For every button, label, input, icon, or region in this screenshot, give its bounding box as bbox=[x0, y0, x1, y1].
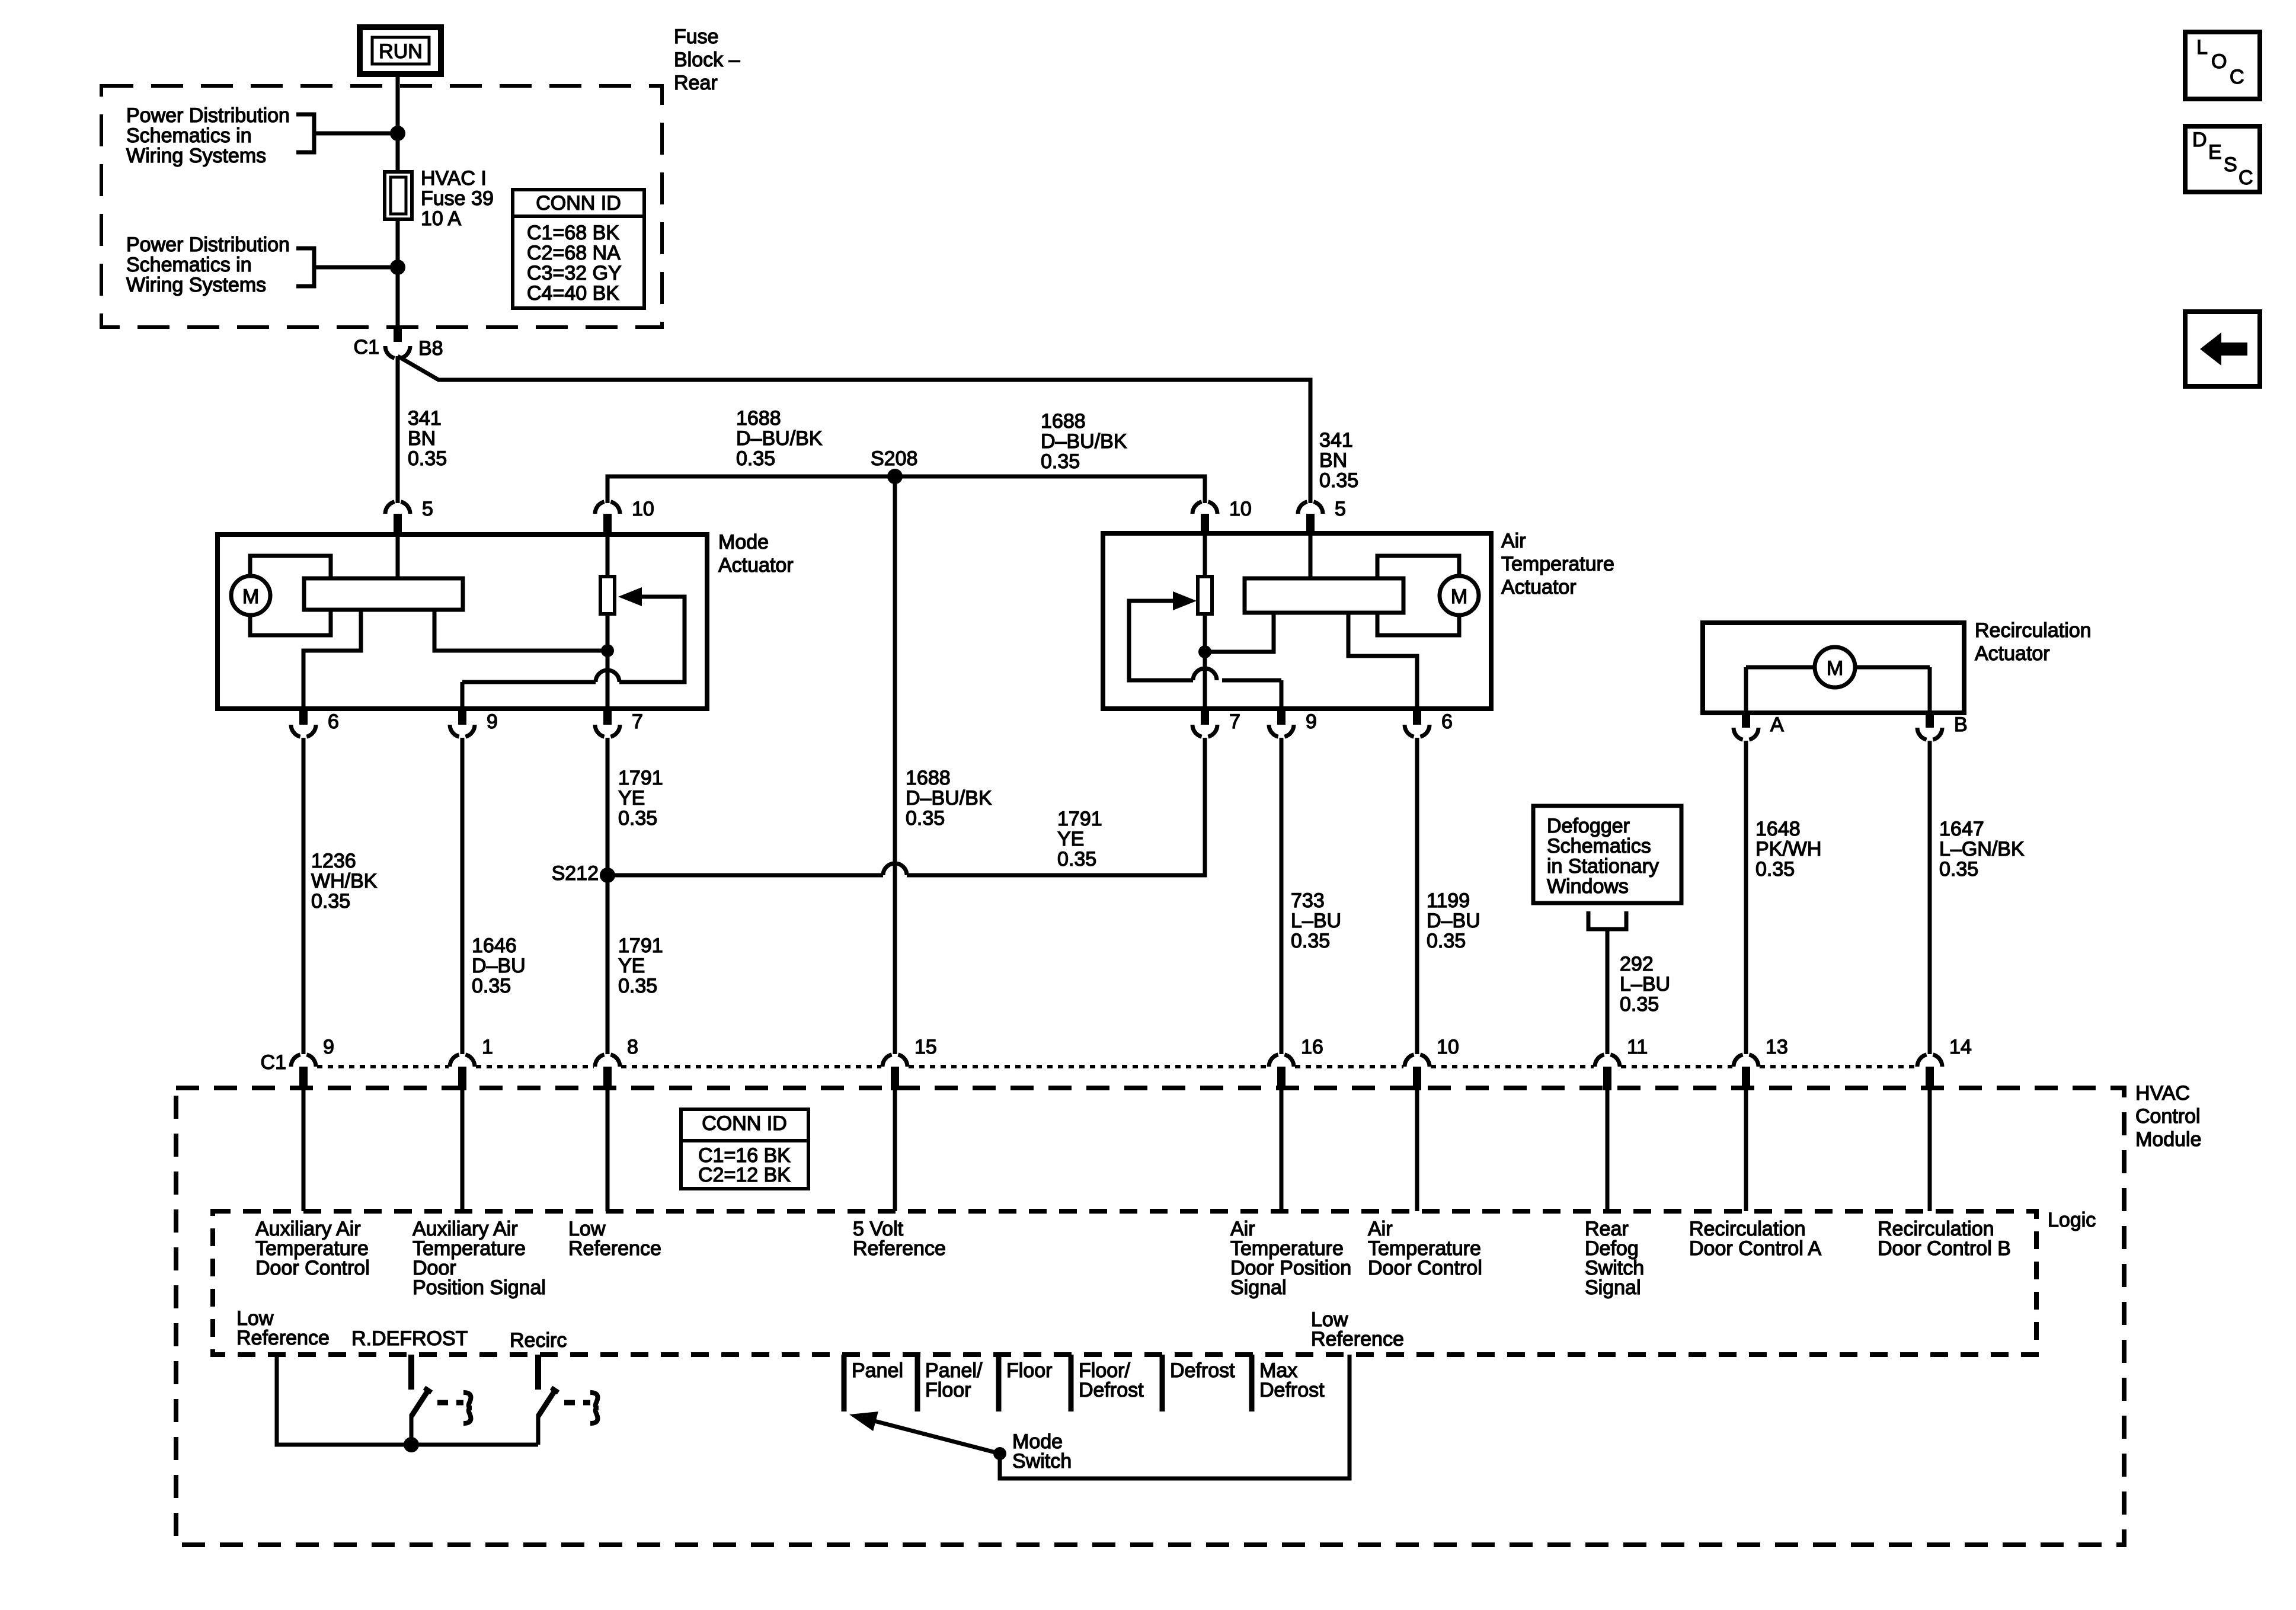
svg-text:Fuse: Fuse bbox=[674, 25, 719, 48]
module pin 16 connector bbox=[1269, 1055, 1278, 1067]
svg-text:YE: YE bbox=[1057, 828, 1084, 850]
svg-text:Power Distribution: Power Distribution bbox=[126, 104, 290, 127]
recirc pin A connector bbox=[1742, 713, 1750, 728]
wire wiper junction to bar (air temp) bbox=[1209, 613, 1274, 652]
svg-text:C4=40 BK: C4=40 BK bbox=[527, 282, 619, 305]
junction node power 1 bbox=[390, 126, 405, 141]
svg-text:6: 6 bbox=[328, 710, 339, 733]
svg-text:C2=68 NA: C2=68 NA bbox=[527, 242, 621, 264]
svg-text:6: 6 bbox=[1441, 710, 1453, 733]
mode switch position tick Floor bbox=[996, 1355, 1002, 1411]
mode switch wiper dot bbox=[993, 1447, 1006, 1460]
defogger reference box bbox=[1533, 806, 1681, 903]
svg-text:9: 9 bbox=[487, 710, 498, 733]
power node RUN bbox=[360, 27, 441, 74]
svg-text:Reference: Reference bbox=[568, 1237, 661, 1260]
wire switch common bbox=[411, 1443, 538, 1447]
svg-text:14: 14 bbox=[1949, 1036, 1972, 1058]
hvac control module dashed box bbox=[176, 1088, 2124, 1545]
svg-text:Defogger: Defogger bbox=[1547, 815, 1630, 837]
svg-text:Panel: Panel bbox=[852, 1359, 903, 1382]
svg-text:341: 341 bbox=[408, 407, 442, 430]
svg-text:10: 10 bbox=[1437, 1036, 1459, 1058]
legend box back-arrow bbox=[2185, 312, 2260, 386]
air temp pin 5 connector bbox=[1298, 502, 1307, 514]
logic dashed box bbox=[213, 1211, 2036, 1355]
module pin 14 connector bbox=[1917, 1055, 1927, 1067]
svg-text:BN: BN bbox=[1319, 449, 1347, 472]
svg-text:L–GN/BK: L–GN/BK bbox=[1939, 838, 2025, 860]
wire pin5 into bar bbox=[396, 534, 400, 578]
mode actuator drive bar bbox=[304, 578, 463, 610]
svg-text:C3=32 GY: C3=32 GY bbox=[527, 262, 622, 284]
wire module pin 8 to logic bbox=[606, 1090, 610, 1211]
mode actuator wiper feedback wire bbox=[462, 680, 596, 684]
mode actuator motor M bbox=[231, 576, 270, 615]
wire 1236 WH/BK bbox=[302, 738, 306, 1054]
svg-text:M: M bbox=[1827, 657, 1843, 680]
svg-text:16: 16 bbox=[1301, 1036, 1323, 1058]
wire 1199 D-BU bbox=[1415, 738, 1419, 1054]
mode actuator pin 9 connector bbox=[458, 709, 466, 725]
wire pot bottom to pin 7 (air temp) bbox=[1203, 614, 1207, 709]
svg-text:Rear: Rear bbox=[674, 72, 718, 94]
mode actuator pin 6 connector bbox=[299, 709, 308, 725]
svg-text:0.35: 0.35 bbox=[472, 975, 511, 997]
svg-text:E: E bbox=[2208, 141, 2222, 164]
mode switch position tick Defrost bbox=[1160, 1355, 1165, 1411]
svg-text:S212: S212 bbox=[552, 862, 599, 885]
mode actuator potentiometer bbox=[606, 534, 610, 577]
svg-text:0.35: 0.35 bbox=[1319, 469, 1358, 492]
wire bar to wiper junction bbox=[434, 610, 603, 651]
svg-text:S208: S208 bbox=[871, 447, 917, 470]
svg-text:0.35: 0.35 bbox=[311, 890, 350, 913]
svg-text:7: 7 bbox=[632, 710, 643, 733]
switch R.DEFROST bbox=[408, 1355, 414, 1390]
wire module pin 1 to logic bbox=[461, 1090, 465, 1211]
svg-text:R.DEFROST: R.DEFROST bbox=[351, 1327, 468, 1350]
svg-text:Logic: Logic bbox=[2048, 1209, 2096, 1231]
mode actuator pin 5 connector bbox=[385, 502, 395, 514]
svg-text:Floor: Floor bbox=[925, 1379, 971, 1401]
svg-text:C1: C1 bbox=[261, 1051, 286, 1074]
svg-text:0.35: 0.35 bbox=[618, 807, 657, 830]
mode switch position tick Panel bbox=[842, 1355, 847, 1411]
wire pin 9 (air temp) bbox=[1280, 680, 1284, 709]
svg-text:Mode: Mode bbox=[718, 531, 769, 553]
wire recirc switch leg bbox=[536, 1415, 541, 1445]
svg-text:Recirculation: Recirculation bbox=[1975, 619, 2092, 642]
splice S212 bbox=[600, 868, 615, 883]
wire pot bottom to pin 7 bbox=[606, 614, 610, 709]
module pin 10 connector bbox=[1405, 1055, 1414, 1067]
wire 341 BN branch to air temperature actuator bbox=[398, 356, 1310, 503]
svg-text:Signal: Signal bbox=[1230, 1276, 1287, 1299]
svg-text:L: L bbox=[2196, 36, 2208, 59]
svg-text:Defrost: Defrost bbox=[1170, 1359, 1235, 1382]
svg-text:1648: 1648 bbox=[1755, 818, 1801, 840]
wire module pin 10 to logic bbox=[1415, 1090, 1419, 1211]
svg-text:15: 15 bbox=[914, 1036, 937, 1058]
module pin 13 connector bbox=[1734, 1055, 1743, 1067]
svg-text:Block –: Block – bbox=[674, 49, 740, 71]
svg-text:733: 733 bbox=[1291, 889, 1325, 912]
mode actuator pin 10 connector bbox=[595, 502, 605, 514]
svg-text:341: 341 bbox=[1319, 429, 1353, 452]
svg-text:M: M bbox=[242, 585, 259, 608]
svg-text:C2=12 BK: C2=12 BK bbox=[698, 1164, 791, 1186]
svg-text:Wiring Systems: Wiring Systems bbox=[126, 274, 266, 296]
svg-text:Schematics in: Schematics in bbox=[126, 124, 252, 147]
svg-text:Windows: Windows bbox=[1547, 875, 1629, 898]
wire bar to pin 6 bbox=[303, 610, 361, 709]
svg-text:Actuator: Actuator bbox=[1975, 642, 2050, 665]
conn id table fuse block bbox=[513, 190, 644, 308]
fuse F39 HVAC I 10A bbox=[385, 172, 412, 219]
svg-text:D–BU/BK: D–BU/BK bbox=[736, 427, 823, 450]
conn id table module bbox=[681, 1109, 808, 1189]
svg-text:L–BU: L–BU bbox=[1620, 973, 1670, 996]
svg-text:CONN ID: CONN ID bbox=[536, 192, 621, 215]
module pin 11 connector bbox=[1595, 1055, 1604, 1067]
air temp motor M bbox=[1440, 576, 1479, 615]
svg-text:Door Control: Door Control bbox=[1368, 1257, 1482, 1279]
wire low reference left bbox=[277, 1355, 408, 1445]
wire from RUN to fuse bbox=[396, 74, 400, 172]
svg-text:Door Control: Door Control bbox=[255, 1257, 370, 1279]
svg-text:9: 9 bbox=[323, 1036, 334, 1058]
svg-text:1199: 1199 bbox=[1427, 889, 1470, 912]
legend box LOC bbox=[2185, 32, 2260, 99]
svg-text:HVAC: HVAC bbox=[2135, 1082, 2190, 1105]
air temp potentiometer bbox=[1203, 534, 1207, 577]
wire 733 L-BU bbox=[1280, 738, 1284, 1054]
wire 1688 D-BU/BK from mode pin 10 to air temp pin 10 bbox=[607, 476, 1205, 503]
mode switch position tick Panel/ bbox=[915, 1355, 920, 1411]
module pin 1 connector bbox=[450, 1055, 459, 1067]
svg-text:WH/BK: WH/BK bbox=[311, 870, 378, 892]
wire module pin 9 to logic bbox=[302, 1090, 306, 1211]
wire pin5 into bar (air temp) bbox=[1309, 534, 1313, 578]
svg-text:10: 10 bbox=[1229, 498, 1252, 520]
mode switch position tick Floor/ bbox=[1069, 1355, 1074, 1411]
wire 1688 from S208 to module pin 15 bbox=[893, 476, 897, 1054]
air temp motor gearbox bbox=[1377, 556, 1459, 635]
svg-text:9: 9 bbox=[1306, 710, 1317, 733]
wire S212 branch to air temp pin 7 bbox=[607, 873, 883, 878]
svg-text:Temperature: Temperature bbox=[1501, 553, 1614, 575]
mode actuator motor gearbox bbox=[250, 556, 331, 635]
svg-text:10 A: 10 A bbox=[421, 207, 461, 230]
svg-text:0.35: 0.35 bbox=[906, 807, 945, 830]
junction dot pot/pin7 (air temp) bbox=[1198, 645, 1211, 658]
mode switch wiper arrow bbox=[862, 1418, 1000, 1454]
switch Recirc bbox=[535, 1355, 541, 1390]
svg-text:Reference: Reference bbox=[236, 1327, 330, 1349]
svg-text:YE: YE bbox=[618, 955, 645, 977]
svg-text:C1=68 BK: C1=68 BK bbox=[527, 222, 619, 244]
svg-text:Schematics: Schematics bbox=[1547, 835, 1651, 857]
svg-text:PK/WH: PK/WH bbox=[1755, 838, 1821, 860]
air temp wiper feedback wire bbox=[1222, 678, 1281, 683]
connector C1 B8 bbox=[394, 327, 402, 342]
svg-text:7: 7 bbox=[1229, 710, 1240, 733]
svg-text:C: C bbox=[2239, 167, 2253, 189]
svg-text:S: S bbox=[2224, 153, 2237, 176]
svg-text:O: O bbox=[2211, 50, 2227, 73]
svg-text:0.35: 0.35 bbox=[1041, 450, 1080, 473]
wire module pin 14 to logic bbox=[1928, 1090, 1932, 1211]
air temperature actuator box bbox=[1103, 533, 1491, 709]
svg-text:HVAC I: HVAC I bbox=[421, 167, 487, 190]
svg-text:Position Signal: Position Signal bbox=[412, 1276, 546, 1299]
svg-text:Air: Air bbox=[1501, 530, 1526, 552]
svg-text:RUN: RUN bbox=[379, 40, 423, 63]
svg-text:11: 11 bbox=[1627, 1036, 1648, 1058]
svg-text:Wiring Systems: Wiring Systems bbox=[126, 145, 266, 167]
svg-text:5: 5 bbox=[422, 498, 433, 520]
connector C1 dotted line bbox=[317, 1065, 449, 1068]
svg-text:CONN ID: CONN ID bbox=[702, 1112, 787, 1135]
svg-text:BN: BN bbox=[408, 427, 436, 450]
svg-text:0.35: 0.35 bbox=[408, 447, 447, 470]
svg-text:Actuator: Actuator bbox=[718, 554, 794, 577]
junction dot switch common bbox=[404, 1437, 419, 1452]
svg-text:B8: B8 bbox=[418, 337, 443, 360]
wire recirc B bbox=[1928, 667, 1932, 713]
bracket power distribution 1 bbox=[296, 114, 314, 152]
wire module pin 15 to logic bbox=[893, 1090, 897, 1211]
svg-text:D–BU: D–BU bbox=[1427, 910, 1480, 932]
svg-text:0.35: 0.35 bbox=[618, 975, 657, 997]
svg-text:0.35: 0.35 bbox=[736, 447, 775, 470]
svg-text:Switch: Switch bbox=[1012, 1450, 1072, 1473]
wire 1646 D-BU bbox=[461, 738, 465, 1054]
svg-text:D: D bbox=[2192, 129, 2207, 151]
svg-text:C1: C1 bbox=[354, 336, 379, 359]
air temp pin 6 connector bbox=[1413, 709, 1421, 725]
svg-text:1688: 1688 bbox=[1041, 410, 1086, 433]
svg-text:0.35: 0.35 bbox=[1057, 848, 1096, 870]
svg-text:Door Control A: Door Control A bbox=[1689, 1237, 1821, 1260]
svg-text:D–BU/BK: D–BU/BK bbox=[906, 787, 992, 809]
svg-text:13: 13 bbox=[1766, 1036, 1788, 1058]
svg-text:Defrost: Defrost bbox=[1079, 1379, 1144, 1401]
wire module pin 11 to logic bbox=[1606, 1090, 1610, 1211]
module pin 15 connector bbox=[882, 1055, 892, 1067]
svg-text:1646: 1646 bbox=[472, 934, 517, 957]
svg-text:1688: 1688 bbox=[736, 407, 781, 430]
air temp pin 10 connector bbox=[1192, 502, 1202, 514]
wire 1648 PK/WH bbox=[1744, 741, 1748, 1054]
mode actuator box bbox=[218, 534, 707, 709]
wire module pin 13 to logic bbox=[1744, 1090, 1748, 1211]
wire low reference to mode switch bbox=[1000, 1355, 1350, 1478]
wire 292 L-BU bbox=[1606, 929, 1610, 1054]
svg-text:YE: YE bbox=[618, 787, 645, 809]
wire 1791 YE bbox=[606, 738, 610, 1054]
svg-text:1791: 1791 bbox=[1057, 808, 1102, 830]
legend box DESC bbox=[2185, 126, 2260, 192]
splice S208 bbox=[887, 469, 903, 484]
wire pin 9 mode bbox=[461, 682, 465, 709]
svg-text:0.35: 0.35 bbox=[1620, 993, 1659, 1016]
svg-text:5: 5 bbox=[1335, 498, 1346, 520]
wire bar to pin 6 (air temp) bbox=[1348, 613, 1417, 709]
svg-text:1688: 1688 bbox=[906, 767, 951, 789]
mode switch position tick Max bbox=[1249, 1355, 1255, 1411]
svg-text:Floor: Floor bbox=[1006, 1359, 1052, 1382]
wire recirc A bbox=[1744, 667, 1748, 713]
svg-text:Reference: Reference bbox=[853, 1237, 946, 1260]
svg-text:C: C bbox=[2230, 66, 2244, 88]
svg-text:Door Control B: Door Control B bbox=[1878, 1237, 2011, 1260]
svg-text:0.35: 0.35 bbox=[1427, 930, 1466, 952]
fuse block - rear dashed box bbox=[101, 86, 662, 327]
recirc pin B connector bbox=[1926, 713, 1934, 728]
svg-text:Reference: Reference bbox=[1311, 1328, 1404, 1350]
svg-text:10: 10 bbox=[632, 498, 654, 520]
svg-text:292: 292 bbox=[1620, 953, 1654, 975]
svg-text:Signal: Signal bbox=[1585, 1276, 1641, 1299]
svg-text:0.35: 0.35 bbox=[1291, 930, 1330, 952]
bracket power distribution 2 bbox=[296, 248, 314, 286]
svg-text:Fuse 39: Fuse 39 bbox=[421, 187, 494, 210]
module pin 9 connector bbox=[291, 1055, 300, 1067]
svg-text:Recirc: Recirc bbox=[510, 1329, 567, 1352]
defogger off-page bracket bbox=[1588, 911, 1626, 929]
svg-text:1647: 1647 bbox=[1939, 818, 1984, 840]
svg-text:1: 1 bbox=[482, 1036, 493, 1058]
air temp drive bar bbox=[1245, 578, 1403, 613]
wire 1647 L-GN/BK bbox=[1928, 741, 1932, 1054]
svg-text:1236: 1236 bbox=[311, 850, 356, 872]
svg-text:in Stationary: in Stationary bbox=[1547, 855, 1659, 878]
svg-text:M: M bbox=[1451, 585, 1467, 608]
air temp pin 7 connector bbox=[1201, 709, 1209, 725]
air temp pin 9 connector bbox=[1277, 709, 1285, 725]
svg-text:D–BU/BK: D–BU/BK bbox=[1041, 430, 1127, 453]
wire 341 BN to mode actuator pin 5 bbox=[396, 356, 400, 503]
wire fuse to connector B8 bbox=[396, 219, 400, 329]
junction node power 2 bbox=[390, 260, 405, 275]
svg-text:Control: Control bbox=[2135, 1105, 2201, 1128]
svg-text:Actuator: Actuator bbox=[1501, 576, 1576, 598]
svg-text:1791: 1791 bbox=[618, 934, 663, 957]
recirculation actuator box bbox=[1703, 623, 1964, 713]
svg-text:L–BU: L–BU bbox=[1291, 910, 1341, 932]
svg-text:Module: Module bbox=[2135, 1128, 2202, 1151]
svg-text:D–BU: D–BU bbox=[472, 955, 526, 977]
svg-text:8: 8 bbox=[627, 1036, 638, 1058]
svg-text:Power Distribution: Power Distribution bbox=[126, 233, 290, 256]
mode actuator pin 7 connector bbox=[603, 709, 612, 725]
svg-text:0.35: 0.35 bbox=[1939, 858, 1978, 881]
svg-text:Schematics in: Schematics in bbox=[126, 254, 252, 276]
junction dot pot/pin7 bbox=[601, 644, 614, 657]
recirc motor M bbox=[1746, 665, 1815, 670]
svg-text:1791: 1791 bbox=[618, 767, 663, 789]
svg-text:Defrost: Defrost bbox=[1259, 1379, 1325, 1401]
svg-text:A: A bbox=[1770, 713, 1784, 736]
module pin 8 connector bbox=[595, 1055, 605, 1067]
svg-text:B: B bbox=[1954, 713, 1968, 736]
wire module pin 16 to logic bbox=[1280, 1090, 1284, 1211]
svg-text:0.35: 0.35 bbox=[1755, 858, 1795, 881]
